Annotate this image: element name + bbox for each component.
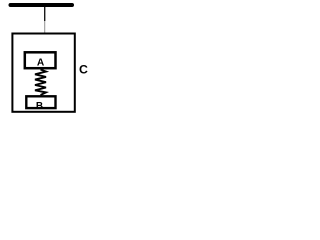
svg-text:C: C xyxy=(79,63,88,77)
svg-text:A: A xyxy=(37,57,45,68)
svg-text:B: B xyxy=(36,101,43,112)
